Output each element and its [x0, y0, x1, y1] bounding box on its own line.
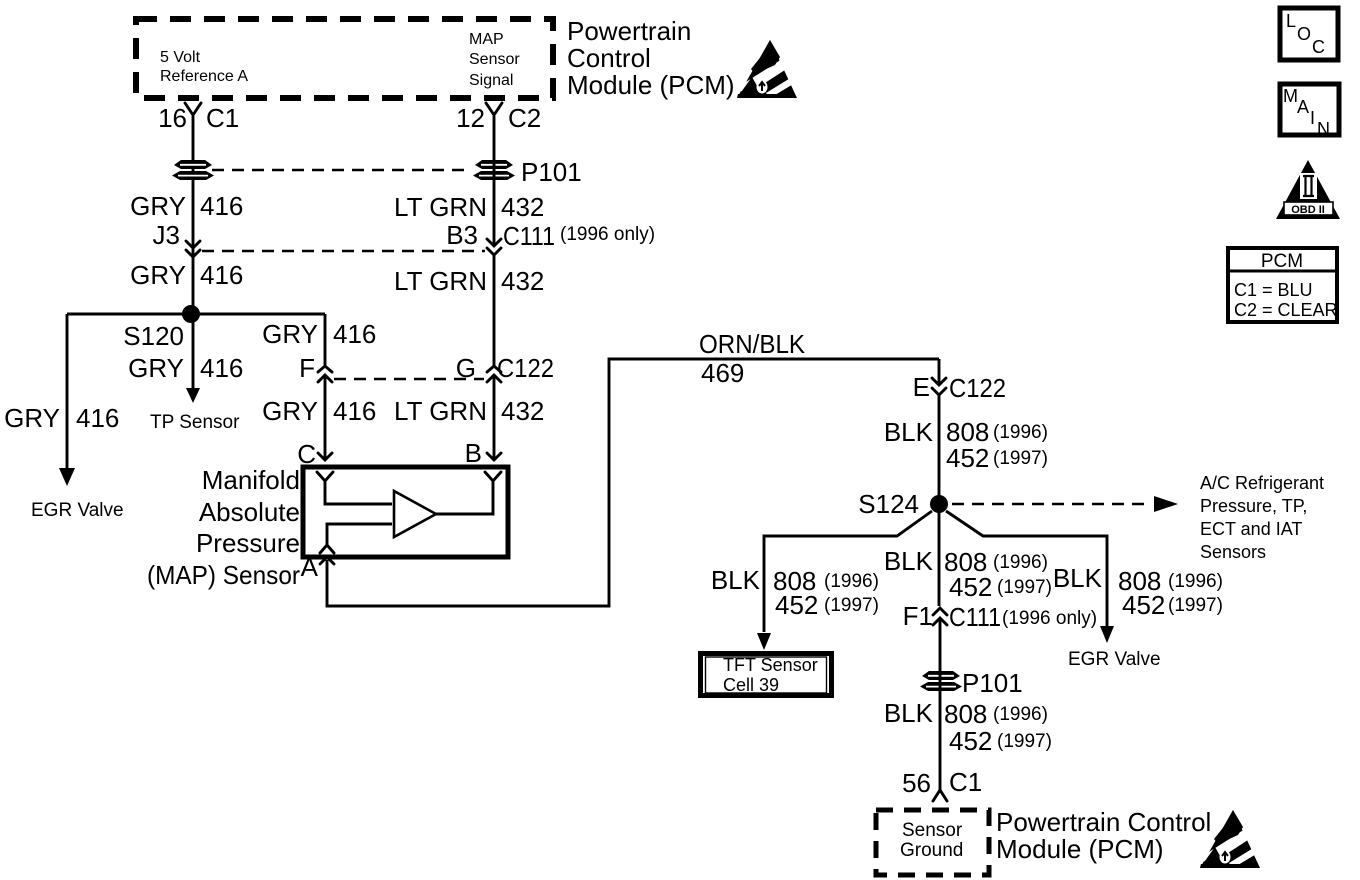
- svg-text:452: 452: [946, 443, 989, 473]
- svg-text:B: B: [465, 438, 482, 468]
- svg-text:BLK: BLK: [711, 565, 761, 595]
- svg-text:C111: C111: [949, 602, 1001, 632]
- svg-text:Powertrain: Powertrain: [567, 16, 691, 46]
- svg-text:452: 452: [1122, 590, 1165, 620]
- svg-text:PCM: PCM: [1261, 251, 1303, 272]
- svg-text:Reference A: Reference A: [160, 68, 248, 85]
- svg-text:P101: P101: [521, 157, 582, 187]
- svg-text:B3: B3: [446, 220, 478, 250]
- svg-text:Sensor: Sensor: [902, 820, 963, 841]
- svg-text:432: 432: [501, 396, 544, 426]
- svg-text:L: L: [1286, 11, 1296, 31]
- svg-text:469: 469: [701, 358, 744, 388]
- svg-text:BLK: BLK: [884, 698, 934, 728]
- svg-text:Signal: Signal: [469, 72, 513, 89]
- svg-text:Control: Control: [567, 43, 651, 73]
- svg-text:F: F: [299, 353, 315, 383]
- svg-text:(1996): (1996): [824, 571, 879, 592]
- svg-text:C111: C111: [503, 221, 555, 251]
- svg-text:GRY: GRY: [130, 260, 186, 290]
- svg-text:56: 56: [902, 768, 931, 798]
- svg-text:(1997): (1997): [997, 731, 1052, 752]
- svg-text:OBD II: OBD II: [1291, 204, 1325, 216]
- svg-text:LT GRN: LT GRN: [394, 396, 487, 426]
- svg-text:(1996): (1996): [993, 552, 1048, 573]
- svg-text:EGR Valve: EGR Valve: [1068, 649, 1161, 670]
- svg-text:P101: P101: [962, 668, 1023, 698]
- svg-text:N: N: [1317, 119, 1330, 139]
- svg-text:C1 = BLU: C1 = BLU: [1234, 280, 1313, 300]
- svg-text:432: 432: [501, 192, 544, 222]
- svg-text:LT GRN: LT GRN: [394, 192, 487, 222]
- svg-text:A: A: [301, 552, 319, 582]
- svg-text:452: 452: [949, 572, 992, 602]
- svg-text:(1997): (1997): [993, 448, 1048, 469]
- svg-text:432: 432: [501, 266, 544, 296]
- svg-text:Pressure: Pressure: [196, 528, 300, 558]
- svg-text:Module (PCM): Module (PCM): [567, 70, 735, 100]
- svg-text:(MAP) Sensor: (MAP) Sensor: [147, 560, 300, 590]
- svg-text:C1: C1: [206, 103, 239, 133]
- svg-text:416: 416: [200, 260, 243, 290]
- svg-text:MAP: MAP: [469, 31, 504, 48]
- svg-text:Absolute: Absolute: [199, 497, 300, 527]
- svg-text:C2: C2: [508, 103, 541, 133]
- svg-text:416: 416: [200, 191, 243, 221]
- svg-text:O: O: [1297, 24, 1311, 44]
- svg-text:ORN/BLK: ORN/BLK: [699, 329, 806, 359]
- svg-text:GRY: GRY: [262, 396, 318, 426]
- svg-text:(1997): (1997): [997, 577, 1052, 598]
- svg-text:TFT Sensor: TFT Sensor: [723, 655, 818, 675]
- svg-text:C2 = CLEAR: C2 = CLEAR: [1234, 300, 1338, 320]
- svg-text:G: G: [456, 353, 476, 383]
- svg-text:(1996): (1996): [993, 704, 1048, 725]
- svg-text:416: 416: [333, 396, 376, 426]
- svg-text:Manifold: Manifold: [202, 465, 300, 495]
- svg-text:GRY: GRY: [262, 319, 318, 349]
- svg-text:C122: C122: [949, 373, 1006, 403]
- svg-text:J3: J3: [153, 220, 180, 250]
- svg-text:416: 416: [200, 353, 243, 383]
- svg-text:452: 452: [949, 726, 992, 756]
- svg-text:F1: F1: [903, 601, 933, 631]
- svg-text:(1996 only): (1996 only): [560, 224, 655, 245]
- svg-text:(1996 only): (1996 only): [1002, 608, 1097, 629]
- svg-text:C: C: [1312, 37, 1325, 57]
- svg-text:S124: S124: [858, 489, 919, 519]
- svg-text:C122: C122: [497, 353, 554, 383]
- svg-text:452: 452: [775, 590, 818, 620]
- svg-text:12: 12: [456, 103, 485, 133]
- svg-text:GRY: GRY: [130, 191, 186, 221]
- svg-text:Ground: Ground: [900, 840, 963, 861]
- svg-text:Sensor: Sensor: [469, 51, 520, 68]
- svg-text:Powertrain Control: Powertrain Control: [996, 807, 1211, 837]
- svg-text:16: 16: [158, 103, 187, 133]
- svg-text:S120: S120: [123, 321, 184, 351]
- svg-text:(1996): (1996): [993, 422, 1048, 443]
- svg-text:C1: C1: [949, 767, 982, 797]
- svg-text:EGR Valve: EGR Valve: [31, 500, 124, 521]
- svg-text:BLK: BLK: [884, 417, 934, 447]
- svg-text:BLK: BLK: [1053, 563, 1103, 593]
- svg-text:E: E: [913, 372, 930, 402]
- svg-text:GRY: GRY: [128, 353, 184, 383]
- svg-text:GRY: GRY: [4, 403, 60, 433]
- svg-text:Sensors: Sensors: [1200, 542, 1266, 562]
- svg-text:A: A: [1297, 97, 1309, 117]
- svg-text:I: I: [1310, 108, 1315, 128]
- svg-text:(1996): (1996): [1168, 571, 1223, 592]
- svg-text:416: 416: [333, 319, 376, 349]
- svg-text:Cell 39: Cell 39: [723, 675, 779, 695]
- svg-text:Pressure, TP,: Pressure, TP,: [1200, 496, 1307, 516]
- svg-text:808: 808: [944, 699, 987, 729]
- svg-text:A/C Refrigerant: A/C Refrigerant: [1200, 473, 1324, 493]
- svg-text:TP Sensor: TP Sensor: [150, 412, 240, 433]
- svg-text:(1997): (1997): [824, 595, 879, 616]
- svg-text:LT GRN: LT GRN: [394, 266, 487, 296]
- svg-text:5 Volt: 5 Volt: [160, 49, 201, 66]
- svg-text:Module (PCM): Module (PCM): [996, 834, 1164, 864]
- svg-text:(1997): (1997): [1168, 595, 1223, 616]
- svg-text:416: 416: [76, 403, 119, 433]
- svg-text:ECT and IAT: ECT and IAT: [1200, 519, 1302, 539]
- svg-text:M: M: [1283, 86, 1298, 106]
- svg-text:BLK: BLK: [884, 546, 934, 576]
